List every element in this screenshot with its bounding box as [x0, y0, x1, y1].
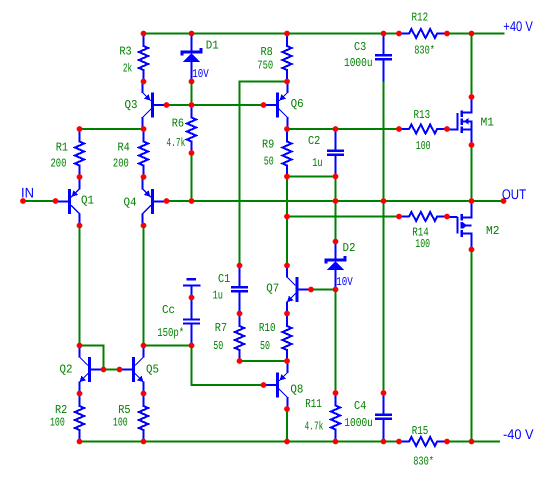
node J64 (287,441.5): [284, 439, 290, 445]
zener diode D2: [335, 242, 337, 260]
svg-text:D1: D1: [206, 38, 219, 52]
svg-text:Q2: Q2: [60, 363, 73, 377]
MOSFET M1 (N-channel): [447, 128, 457, 130]
node J34 (399,216.5): [396, 214, 402, 220]
svg-text:1u: 1u: [312, 156, 322, 170]
wire Q1 collector to Q2: [79, 226, 81, 346]
node J19 (447,129): [444, 126, 450, 132]
svg-text:Q7: Q7: [266, 281, 279, 295]
node J61 (287,409): [284, 406, 290, 412]
resistor R15: [399, 437, 447, 446]
node J21 (79.5,177): [77, 174, 83, 180]
node J68 (447,441.5): [444, 439, 450, 445]
node J53 (287,361): [284, 358, 290, 364]
svg-text:R10: R10: [259, 321, 276, 335]
node J66 (383.5,441.5): [381, 439, 387, 445]
svg-text:IN: IN: [21, 184, 34, 200]
transistor Q2 (NPN): [90, 369, 104, 371]
node J60 (383.5,393): [381, 390, 387, 396]
svg-text:OUT: OUT: [502, 186, 527, 202]
node J46 (191.5,297.5): [189, 295, 195, 301]
node J58 (143.5,393.5): [141, 391, 147, 397]
svg-text:-40 V: -40 V: [503, 426, 534, 442]
wire +40V rail: [144, 33, 505, 35]
node J48 (287,313.5): [284, 311, 290, 317]
svg-text:R11: R11: [305, 397, 322, 411]
wire R1 top to R4 top: [80, 128, 144, 130]
svg-text:100: 100: [113, 416, 128, 430]
resistor R12: [399, 29, 447, 38]
node J36 (79.5,225.5): [77, 223, 83, 229]
resistor R13: [399, 125, 447, 134]
wire C3 bottom to OUT net: [383, 82, 385, 202]
node J30 (383.5,201): [381, 198, 387, 204]
wire Q5 collector to Cc: [144, 345, 192, 347]
node J49 (79.5,345.5): [77, 343, 83, 349]
svg-text:4.7k: 4.7k: [166, 136, 185, 150]
resistor R6: [187, 105, 196, 154]
svg-text:R1: R1: [56, 141, 68, 155]
svg-text:100: 100: [415, 237, 430, 251]
resistor R2: [75, 394, 84, 443]
svg-text:50: 50: [264, 155, 274, 169]
node J23 (287,176.5): [284, 174, 290, 180]
node J63 (143.5,441.5): [141, 439, 147, 445]
wire R9 bottom to C2 bottom: [287, 176, 336, 178]
node J7 (471.5,33.5): [469, 31, 475, 37]
svg-text:Q8: Q8: [290, 382, 303, 396]
svg-text:830*: 830*: [413, 454, 434, 468]
svg-text:750: 750: [257, 59, 273, 73]
wire D1 to R6: [191, 82, 193, 106]
node J5 (399,33.5): [396, 31, 402, 37]
node J47 (239.5,313.5): [237, 311, 243, 317]
node J8 (143.5,81.5): [141, 79, 147, 85]
wire OUT net to C4: [383, 201, 385, 393]
resistor R9: [283, 129, 292, 178]
svg-text:50: 50: [260, 339, 270, 353]
svg-text:C2: C2: [308, 134, 320, 148]
transistor Q7 (NPN): [297, 289, 311, 291]
node J32 (503.5,201): [501, 198, 507, 204]
node J42 (239.5,265.5): [237, 263, 243, 269]
wire Q2 collector-base tie: [80, 346, 104, 370]
node J22 (143.5,177): [141, 174, 147, 180]
node J2 (191.5,33.5): [189, 31, 195, 37]
capacitor C3: [383, 34, 385, 55]
svg-text:+40 V: +40 V: [503, 18, 533, 34]
svg-text:R6: R6: [172, 116, 184, 130]
node J9 (191.5,81.5): [189, 79, 195, 85]
node J10 (287,81.5): [284, 79, 290, 85]
wire Q2 base to Q5 base: [104, 369, 120, 371]
svg-text:R9: R9: [262, 138, 274, 152]
resistor R11: [331, 393, 340, 442]
svg-text:10V: 10V: [336, 275, 353, 289]
node J12 (191.5,105): [189, 102, 195, 108]
transistor Q4 (PNP): [153, 200, 167, 202]
wire Cc bottom to Q8 base: [192, 346, 264, 386]
node J3 (287,33.5): [284, 31, 290, 37]
wire Q4 collector to Q5: [143, 226, 145, 346]
node J43 (287,265.5): [284, 263, 290, 269]
node J28 (191.5,201): [189, 198, 195, 204]
svg-text:4.7k: 4.7k: [305, 420, 324, 434]
wire D2 anode to R11: [335, 290, 337, 394]
resistor R4: [139, 129, 148, 178]
node J18 (399,129): [396, 126, 402, 132]
node J37 (143.5,225.5): [141, 223, 147, 229]
svg-text:R15: R15: [412, 424, 429, 438]
wire M2 source to -40V: [471, 250, 473, 442]
svg-text:1000u: 1000u: [344, 416, 373, 430]
svg-text:830*: 830*: [414, 43, 435, 57]
node J52 (239.5,361): [237, 358, 243, 364]
node J54 (103.5,369.5): [101, 367, 107, 373]
node J17 (335.5,129): [333, 126, 339, 132]
wire R6 bottom to OUT net: [191, 153, 193, 201]
zener diode D1: [191, 34, 193, 52]
svg-text:200: 200: [51, 157, 67, 171]
wire M1 source to OUT: [471, 145, 473, 201]
wire Q7 base to D2 anode: [311, 289, 336, 291]
wire OUT net to D2: [335, 201, 337, 242]
node J51 (191.5,345.5): [189, 343, 195, 349]
node J50 (143.5,345.5): [141, 343, 147, 349]
svg-text:100: 100: [50, 416, 65, 430]
transistor Q6 (PNP): [264, 104, 278, 106]
node J45 (335.5,289.5): [333, 287, 339, 293]
svg-text:50: 50: [213, 339, 223, 353]
node J1 (143.5,33.5): [141, 31, 147, 37]
wire C2 bottom to OUT net: [335, 177, 337, 202]
svg-text:M2: M2: [486, 224, 500, 238]
wire +40V to M1 drain: [471, 34, 473, 98]
wire Q8 collector to -40V rail: [286, 409, 288, 442]
svg-text:C4: C4: [354, 399, 366, 413]
resistor R5: [139, 394, 148, 443]
node J55 (119.5,369.5): [117, 367, 123, 373]
node J59 (335.5,393): [333, 390, 339, 396]
node J39 (471.5,97): [469, 94, 475, 100]
capacitor C1: [239, 266, 241, 287]
node J24 (335.5,176.5): [333, 174, 339, 180]
node J67 (399,441.5): [396, 439, 402, 445]
svg-text:R4: R4: [118, 141, 130, 155]
node J14 (79.5,129): [77, 126, 83, 132]
svg-text:C3: C3: [354, 40, 366, 54]
node J33 (287,216.5): [284, 214, 290, 220]
svg-text:R12: R12: [412, 11, 429, 25]
resistor R7: [235, 314, 244, 363]
node J26 (55.5,201): [53, 198, 59, 204]
node J44 (311,289.5): [308, 287, 314, 293]
node J20 (191.5,153): [189, 150, 195, 156]
svg-text:100: 100: [416, 139, 431, 153]
node J41 (471.5,249.5): [469, 247, 475, 253]
svg-text:200: 200: [113, 157, 129, 171]
node J40 (471.5,145): [469, 142, 475, 148]
wire R7 bottom to Q8 emitter: [240, 360, 288, 362]
svg-text:1u: 1u: [213, 289, 223, 303]
wire to R14 (M2 gate row): [287, 216, 399, 218]
node J25 (23,201): [20, 198, 26, 204]
node J31 (471.5,201): [469, 198, 475, 204]
node J57 (79.5,393.5): [77, 391, 83, 397]
node J13 (263.5,105): [261, 102, 267, 108]
svg-text:R3: R3: [119, 45, 131, 59]
wire Q3-Q6 base net: [167, 104, 264, 106]
node J16 (287,129): [284, 126, 290, 132]
svg-text:1000u: 1000u: [344, 56, 373, 70]
capacitor C4: [383, 393, 385, 414]
transistor Q8 (PNP): [264, 384, 278, 386]
transistor Q5 (NPN): [120, 369, 134, 371]
capacitor C2: [335, 129, 337, 150]
svg-text:R13: R13: [414, 108, 431, 122]
wire Q6 collector to R13 (M1 gate row): [287, 128, 399, 130]
svg-text:10V: 10V: [192, 67, 209, 81]
node J38 (335.5,241.5): [333, 239, 339, 245]
MOSFET M2 (P-channel): [447, 216, 457, 218]
svg-text:Q5: Q5: [146, 363, 159, 377]
resistor R14: [399, 212, 447, 221]
resistor R8: [283, 34, 292, 83]
node J62 (79.5,441.5): [77, 439, 83, 445]
resistor R1: [75, 129, 84, 178]
node J69 (471.5,441.5): [469, 439, 475, 445]
svg-text:Q4: Q4: [124, 196, 137, 210]
svg-text:R8: R8: [261, 45, 273, 59]
node J4 (383.5,33.5): [381, 31, 387, 37]
transistor Q3 (PNP): [153, 104, 167, 106]
resistor R10: [283, 314, 292, 363]
node J11 (166.5,105): [164, 102, 170, 108]
capacitor Cc top element (short plate pair): [187, 278, 196, 280]
svg-text:Q6: Q6: [291, 97, 304, 111]
svg-text:Q1: Q1: [81, 194, 94, 208]
wire -40V rail: [80, 441, 501, 443]
svg-text:M1: M1: [481, 115, 495, 129]
resistor R3: [139, 34, 148, 83]
node J15 (143.5,129): [141, 126, 147, 132]
svg-text:150p*: 150p*: [157, 326, 184, 340]
node J35 (447,216.5): [444, 214, 450, 220]
node J6 (447,33.5): [444, 31, 450, 37]
svg-text:2k: 2k: [123, 62, 132, 76]
svg-text:R7: R7: [215, 321, 227, 335]
node J27 (166.5,201): [164, 198, 170, 204]
node J65 (335.5,441.5): [333, 439, 339, 445]
wire Q4 base / OUT net: [167, 200, 504, 202]
svg-text:Cc: Cc: [162, 303, 175, 317]
wire R8 bottom to C1 top: [240, 82, 288, 266]
node J56 (263.5,385): [261, 382, 267, 388]
node J29 (335.5,201): [333, 198, 339, 204]
svg-text:Q3: Q3: [125, 98, 138, 112]
transistor Q1 (PNP): [56, 200, 70, 202]
wire R9 bottom to Q7 collector: [286, 177, 288, 266]
capacitor Cc: [191, 298, 193, 319]
svg-text:C1: C1: [218, 272, 230, 286]
wire IN to Q1 base: [23, 200, 56, 202]
svg-text:D2: D2: [343, 241, 356, 255]
